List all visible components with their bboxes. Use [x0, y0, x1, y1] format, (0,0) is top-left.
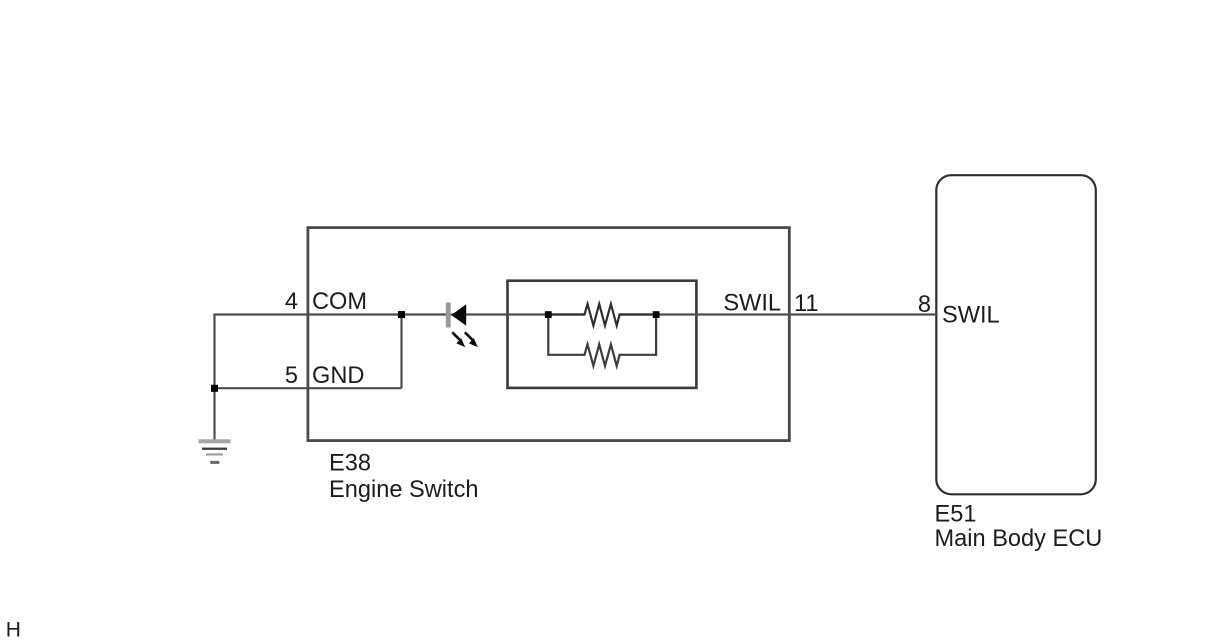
resistor R1 (top)	[552, 304, 653, 326]
ECU E51 (Main Body ECU) outline	[936, 175, 1096, 494]
svg-text:E51: E51	[935, 502, 977, 528]
connector E38 (Engine Switch) outline	[308, 228, 789, 441]
svg-text:E38: E38	[329, 451, 371, 477]
LED D1: emission arrow 2	[465, 332, 478, 347]
svg-text:SWIL: SWIL	[942, 303, 1000, 329]
svg-text:GND: GND	[312, 363, 364, 389]
LED D1: cathode bar	[446, 303, 451, 328]
resistor R2 (bottom) with branch wires	[548, 318, 656, 366]
ground symbol	[199, 439, 231, 464]
svg-text:4: 4	[285, 289, 298, 315]
svg-text:SWIL: SWIL	[723, 291, 781, 317]
node: junction dot on ground drop	[211, 385, 218, 392]
wire: left vertical drop to ground	[213, 315, 215, 441]
wire: GND horizontal run, pin 5	[215, 387, 402, 389]
svg-text:11: 11	[794, 291, 819, 317]
resistor block outline	[508, 281, 697, 388]
svg-text:Main Body ECU: Main Body ECU	[935, 526, 1103, 552]
wire: SWIL run, resistor R1 to pin 8	[620, 313, 937, 315]
svg-text:8: 8	[918, 292, 931, 318]
wire: vertical link COM node to GND run	[400, 315, 402, 389]
svg-text:Engine Switch: Engine Switch	[329, 477, 479, 503]
wire: COM / SWIL main horizontal run, pin 4 to resistor R1	[213, 313, 584, 315]
svg-text:5: 5	[285, 363, 298, 389]
LED D1: emission arrow 1	[452, 332, 465, 347]
svg-text:H: H	[6, 619, 21, 642]
node: junction dot right of resistor pair	[653, 311, 660, 318]
LED D1: triangle	[451, 304, 466, 325]
node: junction dot on COM wire	[398, 311, 405, 318]
node: junction dot left of resistor pair	[545, 311, 552, 318]
svg-text:COM: COM	[312, 289, 367, 315]
